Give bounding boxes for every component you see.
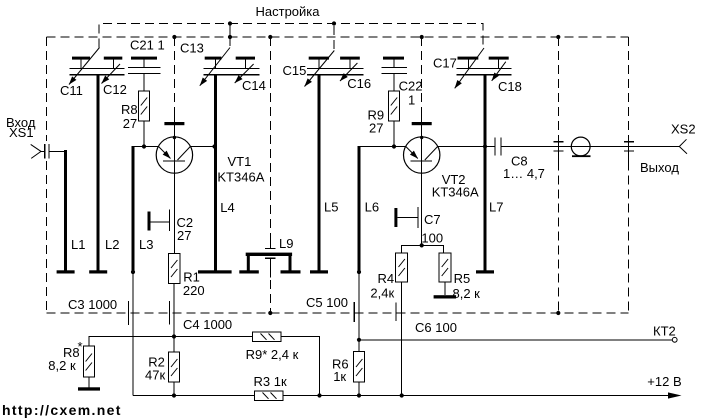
svg-text:http://cxem.net: http://cxem.net	[2, 402, 122, 418]
arrow +12V supply	[668, 392, 682, 398]
svg-text:C6 100: C6 100	[415, 320, 457, 335]
capacitor C13 top bar	[205, 57, 222, 60]
capacitor C17 C18 shared plates	[457, 69, 512, 75]
node dot VT1 base top	[173, 136, 176, 139]
wire +12V rail left segment	[133, 395, 255, 397]
resistor R5 slashes	[442, 259, 448, 276]
transistor VT2 emitter with arrow	[406, 147, 418, 159]
svg-text:R4: R4	[378, 271, 395, 286]
svg-text:C17: C17	[433, 56, 457, 71]
resistor R6 body	[354, 352, 365, 383]
shield wall2 right dashed	[628, 37, 630, 313]
node dot +12V at R9a	[317, 393, 321, 397]
capacitor C11 top bar	[72, 57, 90, 60]
node dot rail1 x334	[332, 21, 336, 25]
capacitor C16 arrow	[340, 63, 357, 81]
shield wall1 partition dashed	[557, 37, 559, 313]
svg-text:L1: L1	[71, 237, 85, 252]
svg-text:XS2: XS2	[671, 122, 696, 137]
node dot L6 bottom	[357, 270, 361, 274]
resistor R8 slashes	[141, 98, 147, 115]
wire L6 bottom to KT2 rail through C5	[358, 272, 360, 340]
resistor R2 body	[169, 352, 180, 382]
svg-text:КТ2: КТ2	[653, 324, 676, 339]
wire C8 to XS2	[501, 146, 679, 148]
capacitor C15 C16 shared plates	[307, 69, 364, 75]
wire R8 to base wire	[143, 121, 145, 147]
svg-text:R3 1к: R3 1к	[254, 374, 287, 389]
transistor VT2 tuning bar	[412, 122, 432, 125]
resistor R2 slashes	[171, 359, 177, 376]
capacitor C11 C12 shared plates	[70, 69, 125, 75]
svg-text:27: 27	[123, 116, 137, 131]
svg-text:L6: L6	[365, 200, 379, 215]
wire dashed tuning stub VT1 column	[173, 37, 175, 107]
inductor L1 foot	[57, 270, 75, 273]
svg-text:C3 1000: C3 1000	[68, 297, 117, 312]
transistor VT2 circle	[404, 137, 440, 173]
inductor L5 resonator	[318, 75, 321, 271]
svg-text:L9: L9	[279, 236, 293, 251]
capacitor C18 stem	[498, 60, 500, 69]
L9 trimmer upper plate	[265, 247, 276, 249]
resistor R6 slashes	[356, 359, 362, 376]
node dot collector at L7	[483, 144, 487, 148]
inductor L3 resonator	[132, 146, 135, 271]
capacitor C4 plate	[169, 301, 171, 325]
svg-text:R9* 2,4 к: R9* 2,4 к	[246, 347, 299, 362]
L9 trimmer lower plate	[265, 257, 276, 259]
capacitor C21 top bar	[131, 57, 157, 60]
resistor R1 slashes	[171, 260, 177, 277]
capacitor C21 stem	[143, 60, 145, 68]
capacitor C21 plates	[128, 68, 160, 74]
wire dashed stub x230 to C13 arrow	[229, 37, 231, 48]
svg-text:C16: C16	[347, 76, 371, 91]
inductor L4 foot	[198, 270, 232, 273]
svg-text:L4: L4	[220, 200, 234, 215]
inductor L2 resonator	[97, 75, 100, 271]
transistor VT1 tuning bar stem lower	[173, 125, 175, 137]
capacitor C7 ground bar	[394, 208, 397, 227]
wire R9a to +12V rail	[281, 337, 320, 396]
capacitor C17 arrow	[455, 48, 484, 88]
ground bar R8a	[78, 387, 100, 390]
inductor L7 resonator	[484, 75, 487, 270]
node dot rail2 x270	[268, 35, 272, 39]
inductor L9 left foot	[239, 270, 258, 273]
transistor VT2 base vertical	[421, 138, 423, 162]
resistor R5 body	[439, 253, 451, 282]
svg-text:Настройка: Настройка	[256, 4, 321, 19]
capacitor C14 stem	[244, 60, 246, 69]
wire C2	[151, 221, 170, 223]
svg-text:C18: C18	[498, 79, 522, 94]
capacitor C3 plate	[127, 301, 129, 325]
svg-text:100: 100	[421, 231, 443, 246]
svg-text:L5: L5	[324, 200, 338, 215]
wire dashed tuning stub L9 column	[269, 37, 271, 236]
svg-text:VT1: VT1	[228, 154, 252, 169]
svg-text:C5 100: C5 100	[306, 295, 348, 310]
svg-text:2,4к: 2,4к	[370, 286, 394, 301]
shield left wall dashed	[46, 37, 48, 313]
svg-text:Выход: Выход	[640, 160, 679, 175]
resistor R9a slashes	[261, 334, 275, 340]
svg-text:C22: C22	[399, 78, 423, 93]
wire C22 to R9	[393, 74, 395, 92]
transistor VT1 tuning bar stem upper	[173, 107, 175, 122]
wire solid stub rail1-rail2 at x230	[229, 24, 231, 38]
svg-text:8,2 к: 8,2 к	[48, 358, 76, 373]
capacitor C14 arrow	[235, 64, 254, 83]
shield box top rail2 dashed	[47, 36, 629, 38]
resistor R9 body	[389, 91, 400, 121]
svg-text:XS1: XS1	[9, 125, 34, 140]
capacitor input feedthrough plates	[45, 144, 49, 159]
wire VT1 base stem down	[173, 161, 175, 254]
capacitor C2 plate	[169, 209, 171, 231]
wire R9 to base wire	[393, 121, 395, 147]
svg-text:KT346A: KT346A	[432, 185, 479, 200]
inductor L9 left leg	[247, 256, 250, 271]
resistor R8a slashes	[86, 354, 92, 371]
wire VT2 base stem down	[421, 161, 423, 245]
L9 trimmer lower stem	[269, 258, 271, 277]
svg-text:C11: C11	[60, 83, 83, 98]
capacitor C17 top bar	[458, 57, 479, 60]
resistor R4 slashes	[399, 259, 405, 276]
node dot wall1 top	[556, 35, 560, 39]
feedthrough wall2 ticks	[624, 142, 634, 151]
svg-text:C4 1000: C4 1000	[183, 317, 232, 332]
resistor R3 slashes	[263, 393, 277, 399]
transistor VT1 base vertical	[173, 138, 175, 162]
connector XS2 chevron	[679, 139, 687, 153]
terminal KT2 circle	[672, 337, 677, 342]
inductor L6 resonator	[358, 146, 361, 271]
inductor L1 resonator	[64, 150, 67, 271]
capacitor C13 C14 shared plates	[204, 69, 260, 75]
transistor VT2 collector diagonal	[425, 147, 438, 161]
wire VT1 to L4	[190, 146, 214, 148]
wire tuning rail1 dashed with end corners	[99, 24, 483, 48]
ground bar R5	[434, 295, 457, 298]
wire bias rail left segment	[89, 337, 253, 347]
wire R5 to ground	[444, 282, 446, 295]
svg-text:C7: C7	[424, 212, 441, 227]
svg-text:C21 1: C21 1	[130, 38, 165, 53]
capacitor C8 plates	[495, 137, 501, 155]
transistor VT2 tuning bar stem upper	[421, 107, 423, 122]
feedthrough wall1 solid segment	[557, 135, 559, 162]
svg-text:L2: L2	[105, 237, 119, 252]
wire dashed L9 to shield bottom	[269, 280, 271, 313]
shield bottom rail dashed	[47, 312, 629, 314]
wire R4 down to +12V rail	[401, 282, 403, 396]
svg-text:R5: R5	[454, 271, 471, 286]
capacitor C13 arrow	[200, 48, 230, 86]
capacitor C16 top bar	[340, 57, 360, 60]
node dot rail2 x230	[228, 35, 232, 39]
transistor VT1 tuning bar	[164, 122, 184, 125]
wire R8a to ground	[88, 377, 90, 388]
node dot wall1 bottom	[556, 311, 560, 315]
resistor R2 top stem	[173, 337, 175, 353]
inductor L9 coupling loop top bar	[246, 253, 292, 256]
node dot VT2 base top	[420, 136, 423, 139]
wire C21 to R8	[143, 74, 145, 92]
capacitor C16 stem	[349, 60, 351, 69]
capacitor C2 ground bar	[148, 212, 151, 231]
capacitor C22 plates	[382, 68, 407, 74]
node dot +12V at C6	[400, 393, 404, 397]
transistor VT2 base chord	[410, 160, 432, 162]
node dot L3 bottom	[131, 270, 135, 274]
capacitor C15 top bar	[309, 57, 329, 60]
resistor R9a body horizontal	[253, 332, 282, 342]
capacitor C22 top bar	[383, 57, 404, 60]
capacitor C18 arrow	[492, 62, 506, 81]
capacitor C18 top bar	[489, 57, 509, 60]
wire R1 to bias rail through C4	[173, 284, 175, 337]
resistor R3 body horizontal	[255, 391, 284, 401]
wire XS1 to plate	[41, 150, 45, 152]
node dot rail2 x174	[172, 35, 176, 39]
node dot L9 link on shield bottom	[268, 311, 272, 315]
wire dashed tuning stub VT2 column	[421, 37, 423, 107]
capacitor C22 stem	[393, 60, 395, 68]
node dot KT2 at C5 R6	[357, 338, 361, 342]
feedthrough wall2 solid segment	[628, 135, 630, 162]
inductor L4 resonator	[214, 75, 217, 271]
resistor R8a body	[83, 346, 94, 377]
transistor VT1 circle	[156, 137, 192, 173]
capacitor C14 top bar	[236, 57, 255, 60]
capacitor C7 plate	[417, 207, 419, 228]
wire L3 top to VT1	[133, 146, 159, 148]
capacitor C12 top bar	[104, 57, 123, 60]
node dot rail1 x230	[228, 21, 232, 25]
resistor R6 top stem	[358, 340, 360, 352]
node dot bias rail at R2	[172, 334, 176, 338]
wire L3 bottom to +12V rail through C3	[132, 272, 134, 396]
svg-text:8,2 к: 8,2 к	[453, 286, 481, 301]
L9 trimmer upper stem	[269, 236, 271, 248]
svg-text:27: 27	[177, 228, 191, 243]
capacitor C15 stem	[318, 60, 320, 69]
svg-text:27: 27	[369, 121, 383, 136]
wire dashed stub x334 to C15 arrow	[333, 26, 335, 50]
svg-text:+12 В: +12 В	[647, 374, 681, 389]
svg-text:R8: R8	[121, 102, 138, 117]
inductor L7 foot	[476, 270, 494, 273]
svg-text:47к: 47к	[145, 368, 165, 383]
capacitor C12 stem	[113, 60, 115, 69]
svg-text:*: *	[78, 339, 83, 354]
wire plate to L1 top	[49, 150, 66, 152]
node dot VT2 base split	[420, 243, 424, 247]
wire L7 to C8	[485, 146, 495, 148]
wire C7	[397, 217, 418, 219]
wire L6 top to VT2	[359, 146, 406, 148]
svg-text:L7: L7	[489, 200, 503, 215]
transistor VT2 tuning bar stem lower	[421, 125, 423, 137]
wire VT2 to L7	[438, 146, 485, 148]
svg-text:C14: C14	[242, 78, 266, 93]
resistor R4 body	[396, 253, 408, 282]
wire through bushing	[571, 146, 590, 148]
wire +12V rail right segment	[283, 395, 669, 397]
capacitor C12 arrow	[102, 64, 121, 84]
resistor R8 body	[139, 91, 150, 121]
capacitor C15 arrow	[305, 51, 335, 87]
node dot +12V at R6	[357, 393, 361, 397]
svg-text:C13: C13	[180, 41, 204, 56]
inductor L9 right foot	[281, 270, 301, 273]
capacitor C11 stem	[80, 60, 82, 69]
wire KT2 line	[359, 339, 672, 341]
inductor L9 right leg	[289, 256, 292, 271]
resistor R6 bottom stem	[358, 382, 360, 396]
capacitor C17 stem	[468, 60, 470, 69]
capacitor C5 plate	[353, 302, 355, 322]
node dot rail2 x422	[420, 35, 424, 39]
transistor VT1 base chord	[163, 160, 185, 162]
resistor R9 slashes	[391, 98, 397, 115]
node dot collector at L4	[212, 144, 216, 148]
capacitor C6 plate	[395, 302, 397, 321]
resistor R1 body	[169, 254, 181, 284]
bushing ground tick	[572, 155, 591, 157]
svg-text:1: 1	[408, 92, 415, 107]
inductor L2 foot	[89, 270, 107, 273]
feedthrough wall1 ticks	[554, 142, 564, 151]
node dot R8 junction	[142, 144, 146, 148]
connector XS1 chevron	[31, 144, 41, 158]
capacitor C13 stem	[214, 60, 216, 69]
svg-text:1к: 1к	[333, 369, 346, 384]
svg-text:1… 4,7: 1… 4,7	[503, 166, 545, 181]
svg-text:L3: L3	[139, 237, 153, 252]
svg-text:C15: C15	[283, 63, 307, 78]
inductor L5 foot	[310, 270, 328, 273]
capacitor C11 arrow	[69, 48, 100, 85]
resistor R2 bottom stem	[173, 382, 175, 396]
svg-text:220: 220	[183, 283, 205, 298]
svg-text:KT346A: KT346A	[217, 170, 264, 185]
svg-text:C12: C12	[103, 82, 127, 97]
wire base split bar	[402, 245, 444, 253]
transistor VT1 collector diagonal	[178, 147, 191, 161]
node dot R9 junction	[392, 144, 396, 148]
bushing circle on output line	[571, 137, 590, 156]
node dot +12V at R2	[172, 393, 176, 397]
transistor VT1 emitter with arrow	[159, 147, 171, 159]
